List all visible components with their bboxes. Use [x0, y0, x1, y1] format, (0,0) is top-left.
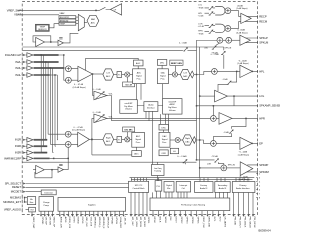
junction micbias [24, 197, 26, 199]
variable gain amp VGA2 (right bypass) [94, 114, 107, 123]
pin WCLK [163, 211, 165, 215]
wire SA2 to amp [231, 22, 241, 29]
svg-text:0...−12dB: 0...−12dB [93, 89, 102, 91]
svg-text:PRI_DIN: PRI_DIN [233, 217, 235, 226]
node row4R [53, 158, 55, 160]
svg-text:Left: Left [107, 72, 111, 75]
amp A4L [27, 73, 33, 78]
svg-text:ADC: ADC [137, 72, 142, 75]
wire to multiplier R [122, 138, 125, 140]
pin DOUT [174, 211, 176, 215]
svg-text:DRC: DRC [160, 62, 165, 64]
svg-text:Gen M: Gen M [125, 85, 132, 87]
block factory audio IF [195, 182, 214, 193]
wire row2 [205, 12, 216, 14]
op-amp U4 (bandgap buffer with feedback loop) [36, 37, 45, 46]
PGA R (0..47dB) [78, 132, 90, 147]
wire IN4L [26, 74, 28, 76]
svg-text:miniDSP: miniDSP [125, 103, 133, 105]
svg-text:SAR: SAR [91, 18, 96, 21]
svg-text:Dig Mixer: Dig Mixer [124, 106, 133, 108]
bypass wire (y118.4) [107, 117, 211, 119]
svg-text:EP: EP [259, 141, 263, 145]
wire bus to sum R1 [48, 133, 65, 135]
svg-text:Detection: Detection [44, 192, 52, 195]
pin VREF_CAP [31, 212, 33, 215]
op-amp G (speaker right driver) [240, 162, 253, 176]
svg-text:Secondary: Secondary [218, 185, 228, 187]
svg-text:±30dB: ±30dB [237, 5, 243, 7]
label MB bars bottom [59, 164, 62, 165]
svg-text:HPR: HPR [259, 116, 265, 120]
pin INT2 [217, 211, 219, 215]
pin CFLY1M [48, 211, 50, 214]
svg-text:DRC: DRC [162, 127, 167, 129]
attenuator EP [229, 129, 234, 133]
wire to multiplier [122, 74, 125, 76]
svg-text:AGC: AGC [134, 153, 139, 156]
wire IN1R [26, 139, 28, 141]
svg-text:Audio: Audio [148, 104, 154, 107]
wire bus to sum R2 [50, 143, 65, 145]
svg-text:VDD_1V8: VDD_1V8 [85, 217, 87, 228]
svg-text:GPIO5: GPIO5 [197, 217, 199, 224]
pin SPI_SCLK [134, 192, 136, 214]
mux M1 (battery monitor mux) [78, 14, 84, 30]
svg-text:ADC: ADC [106, 75, 111, 78]
amp A4R [27, 156, 33, 161]
svg-text:DMIC_CLK: DMIC_CLK [202, 217, 204, 229]
wire U5 output to mux [63, 33, 78, 43]
wire amp E out [232, 117, 258, 119]
svg-text:ASRC: ASRC [170, 103, 176, 106]
pin INT1 [212, 211, 214, 215]
svg-text:AVDD_1V8: AVDD_1V8 [60, 217, 63, 229]
pin DMIC_CLK [201, 211, 203, 215]
svg-text:DAC: DAC [183, 75, 188, 78]
svg-text:ADC: ADC [136, 135, 141, 138]
DAC U7 (left sigma-delta DAC) [180, 69, 190, 79]
svg-text:DAC: DAC [185, 140, 190, 143]
svg-text:SPKAMP_SENSE: SPKAMP_SENSE [259, 104, 280, 108]
svg-text:WCLK: WCLK [164, 217, 166, 224]
svg-text:MICBIAS: MICBIAS [10, 195, 21, 199]
wire VBAT [18, 14, 59, 16]
wire D1 to SA1 handled, wire SA1 to amp [231, 11, 241, 17]
op-amp F (earpiece driver) [240, 137, 252, 149]
wire IN2L [26, 61, 28, 63]
wires bus into SPI box [132, 178, 147, 182]
svg-text:(6-dB Steps): (6-dB Steps) [238, 178, 250, 181]
svg-text:−51 dB: −51 dB [198, 16, 205, 18]
pin SPKVDD_L [93, 211, 95, 214]
svg-text:DVSS: DVSS [72, 217, 74, 223]
svg-text:HPL: HPL [259, 69, 265, 73]
pin PRI_MCLK [252, 193, 254, 215]
block OSR [159, 150, 168, 156]
svg-text:GPIO2: GPIO2 [180, 217, 182, 224]
svg-text:MCLK: MCLK [153, 217, 155, 224]
pin PRI_WCLK [248, 193, 250, 215]
wire IN1L [26, 54, 28, 56]
svg-text:5: 5 [259, 186, 261, 188]
svg-text:IOVSS: IOVSS [81, 217, 83, 224]
variable gain amp VGA1 (left bypass) [94, 91, 107, 100]
svg-text:MICDET: MICDET [11, 190, 22, 194]
svg-text:−0.2 dB: −0.2 dB [198, 26, 205, 28]
block pin muxing / clock routing [150, 198, 230, 211]
wire into VGA2 [92, 118, 94, 139]
pin SPKVSS_L [97, 211, 99, 214]
block mic bias [27, 197, 35, 205]
wire SB2 to amp B [231, 39, 240, 41]
svg-text:RECP: RECP [259, 14, 267, 18]
svg-text:Charge: Charge [43, 202, 50, 204]
block interrupt ctrl [176, 182, 190, 193]
wire mult to DAC R hexagon [180, 139, 183, 141]
block digital mic [164, 182, 174, 193]
multiplier X1 (digital volume) [125, 72, 130, 77]
node loop bottom [51, 169, 53, 171]
wire PGA R out [89, 138, 103, 140]
digital mic block L (shaded) [123, 82, 135, 87]
svg-text:CPVDD: CPVDD [41, 217, 43, 225]
wire dmic R to mult [126, 132, 128, 137]
block detection [41, 190, 56, 195]
svg-text:SPKVSS_R: SPKVSS_R [106, 217, 108, 229]
bus bar IN1R [34, 139, 48, 141]
block audio interface [144, 102, 158, 112]
svg-text:DAC: DAC [162, 135, 167, 138]
svg-text:VREF_AUDIO: VREF_AUDIO [4, 207, 21, 211]
svg-text:INT2: INT2 [218, 217, 220, 223]
svg-text:TEMP: TEMP [60, 24, 66, 26]
svg-text:LOL: LOL [198, 5, 203, 7]
wire U4 output [45, 41, 59, 43]
amp A1R [27, 138, 33, 143]
svg-text:GPR_IN: GPR_IN [225, 48, 232, 50]
temp sensor U3 [35, 24, 49, 31]
svg-text:Bias: Bias [30, 202, 34, 204]
wire VGA1 out to bypass bus [107, 96, 112, 121]
svg-text:Interface: Interface [147, 107, 156, 110]
multiplier X3 [125, 137, 130, 142]
wire VREF_SUP [18, 9, 97, 11]
svg-text:HPL: HPL [198, 13, 203, 15]
bypass wire (y154.9) [92, 154, 132, 156]
wires interface vertical bus ends [196, 40, 198, 160]
ADC U2 (SAR ADC hexagon) [87, 15, 99, 26]
svg-text:Audio Interface: Audio Interface [236, 187, 250, 190]
svg-text:−1.3dB: −1.3dB [222, 79, 229, 81]
wires secondary IF to pinmux [216, 192, 228, 198]
svg-text:PRI_WCLK: PRI_WCLK [248, 217, 250, 229]
pin IOVDD [76, 211, 78, 214]
wire IN3R [26, 152, 28, 154]
op-amp U10 (ref buffer bottom, with loop) [36, 165, 45, 174]
wire DAC L out to HP summer [194, 71, 212, 74]
svg-text:(1-dB Steps): (1-dB Steps) [236, 7, 248, 10]
wire U10 out [44, 169, 58, 171]
block SPI I2C control [129, 181, 149, 192]
svg-text:Signal: Signal [160, 76, 166, 78]
pin DVDD_1V8 [67, 211, 69, 214]
pin IOVSS [80, 211, 82, 214]
wire hex to decimator [114, 74, 117, 76]
interface bus wire (y177.6) [130, 177, 255, 179]
wire DACSP to mult [168, 74, 172, 76]
svg-text:−78 dB: −78 dB [198, 33, 205, 35]
pin MCLK [152, 211, 154, 215]
pin SPI_SSZ [130, 192, 132, 214]
monitor input row 2 [59, 19, 76, 22]
svg-text:VREF_CAP: VREF_CAP [32, 217, 35, 229]
mid bus wire B (y50.4) [22, 49, 183, 51]
svg-text:SPI_SSZ: SPI_SSZ [131, 217, 133, 227]
svg-text:Low Freq: Low Freq [154, 168, 162, 170]
block low freq tracking [152, 165, 165, 176]
svg-text:DVDD_1V8: DVDD_1V8 [68, 217, 70, 229]
summer SB1 [217, 37, 223, 43]
svg-text:Signal: Signal [136, 76, 142, 78]
svg-text:RESET: RESET [12, 185, 21, 189]
wire MICBIAS [26, 197, 28, 199]
svg-text:IN1R: IN1R [15, 138, 21, 142]
svg-text:Digital: Digital [166, 184, 172, 187]
bus bar IN4R [34, 158, 50, 160]
beep generator (shaded) [170, 60, 183, 65]
svg-text:Volume: Volume [125, 109, 133, 111]
svg-text:IN4L: IN4L [15, 73, 21, 77]
wire att C down to summer C [223, 47, 225, 69]
svg-text:DAC: DAC [161, 72, 166, 75]
PGA L (0..47dB) [78, 66, 93, 81]
svg-text:SPKRM: SPKRM [259, 170, 269, 174]
svg-text:6: 6 [259, 190, 261, 192]
svg-text:PRI_DOUT: PRI_DOUT [238, 217, 240, 229]
svg-text:3: 3 [259, 178, 261, 180]
attenuator row1 [209, 6, 214, 10]
wire sidetone tap down [92, 74, 94, 96]
svg-text:BCLK: BCLK [158, 217, 160, 223]
summer SF (EP path) [211, 141, 217, 147]
pin DIN [168, 211, 170, 215]
pin GPIO4 [190, 211, 192, 215]
svg-text:Right: Right [106, 137, 111, 140]
svg-text:HPVSS: HPVSS [115, 217, 117, 225]
bus bar IN2L [34, 61, 59, 63]
pin PRI_BCLK [243, 193, 245, 215]
wire tap down right channel [91, 139, 93, 155]
ADC U6 (left sigma-delta hexagon) [103, 69, 114, 80]
summer SG (spk right) [221, 165, 227, 171]
svg-text:SPI_MISO: SPI_MISO [143, 217, 145, 228]
pin VSS_1V8 [89, 211, 91, 214]
pin I2C_ADR0 [223, 211, 225, 215]
svg-text:LOR: LOR [198, 23, 203, 25]
svg-text:AGC: AGC [136, 62, 141, 65]
pin GPIO5 [196, 211, 198, 215]
wires ASRC down [166, 114, 169, 132]
block primary audio interface [232, 182, 255, 193]
svg-text:SPKRP: SPKRP [259, 163, 268, 167]
pin DVSS [72, 211, 74, 214]
svg-text:INT1: INT1 [213, 217, 215, 223]
summer SE (HPR path) [211, 116, 217, 122]
svg-text:SPKVDD_R: SPKVDD_R [102, 217, 104, 229]
wire mult to DAC hexagon [177, 74, 180, 76]
wire lowfreq up [157, 162, 159, 180]
wire IN4R [26, 157, 28, 159]
op-amp E (HPR driver) [219, 113, 232, 125]
amp A3L [27, 66, 33, 71]
svg-text:VNEG_CP: VNEG_CP [52, 217, 54, 228]
wire SB1-SB2 [223, 39, 227, 41]
svg-text:Tracking: Tracking [154, 171, 161, 173]
summer SA2 [225, 26, 231, 32]
wire audio interface to PLL [152, 111, 154, 164]
op-amp C (HPL driver) [240, 65, 252, 77]
summer SB2 [226, 37, 232, 43]
pin PRI_DIN [233, 193, 235, 215]
svg-text:B0399-04: B0399-04 [259, 229, 272, 233]
block AGC R [132, 151, 142, 157]
svg-text:SENSOR: SENSOR [38, 29, 47, 31]
wire VREF_AUDIO [26, 209, 29, 211]
op-amp A (headset left driver) [241, 13, 251, 23]
multiplier X4 [175, 137, 180, 142]
svg-text:Ref: Ref [31, 210, 34, 212]
block DRC R [159, 124, 168, 130]
summer S1 (left record path) [66, 66, 72, 72]
wire amp C out [252, 70, 257, 72]
summer SC (headphone L) [212, 69, 218, 75]
block secondary audio IF [215, 182, 230, 193]
svg-text:IOVDD: IOVDD [77, 217, 79, 224]
svg-text:−6...14dB: −6...14dB [239, 152, 248, 154]
svg-text:OSR: OSR [161, 153, 166, 155]
wires between mixer blocks [137, 106, 162, 121]
block DRC L [157, 60, 166, 66]
wire SPI_SELECT [26, 183, 129, 185]
svg-text:Fs: Fs [118, 140, 120, 142]
svg-text:ADC: ADC [91, 22, 96, 25]
svg-text:BEEP GEN: BEEP GEN [171, 63, 182, 65]
node PGA L out [92, 73, 94, 75]
svg-text:IN2L: IN2L [15, 60, 21, 64]
pin GPIO3 [185, 211, 187, 215]
svg-text:SPKLM: SPKLM [259, 41, 269, 45]
svg-text:Proc.: Proc. [136, 142, 141, 144]
wires amp B outputs [245, 38, 258, 43]
output stage diamond L [190, 71, 194, 78]
svg-text:HPVDD: HPVDD [111, 217, 113, 225]
svg-text:Supplies: Supplies [88, 204, 96, 206]
pin GPIO1 [146, 192, 148, 214]
svg-text:VOL: VOL [109, 93, 114, 95]
wire AGC to ASP [137, 66, 139, 69]
svg-text:VBAT: VBAT [60, 12, 66, 15]
svg-text:DMIC_DIN: DMIC_DIN [207, 217, 209, 228]
summer S2 [66, 77, 72, 83]
svg-text:SPI_SCLK: SPI_SCLK [135, 217, 137, 228]
op-amp U11 (MB buffer bottom) [58, 167, 63, 172]
svg-text:miniDSP: miniDSP [168, 101, 176, 103]
svg-text:0 ... 47 dB: 0 ... 47 dB [74, 84, 84, 86]
pin SPKVSS_R [106, 211, 108, 214]
svg-text:LOL: LOL [259, 94, 265, 98]
svg-text:0...30dB: 0...30dB [238, 30, 246, 32]
pin SPKVDD_R [101, 211, 103, 214]
pin GPIO2 [179, 211, 181, 215]
svg-text:8: 8 [259, 198, 261, 200]
svg-text:VOL: VOL [109, 116, 114, 118]
wire DACSP R to mult [170, 139, 175, 141]
pin DMIC_DIN [207, 211, 209, 215]
svg-text:LOR: LOR [207, 163, 212, 165]
wire mux to SAR ADC [84, 22, 87, 24]
chip boundary (dashed) [22, 2, 257, 215]
block ADC signal processing R [132, 132, 145, 147]
pin CFLY1P [44, 211, 46, 214]
svg-text:MICBIAS_EXT: MICBIAS_EXT [3, 200, 21, 204]
svg-text:Audio IF: Audio IF [219, 187, 227, 190]
svg-text:Pump: Pump [44, 205, 50, 207]
wires audio IF tops to bus [200, 178, 248, 182]
wire into VGA1 [93, 95, 94, 97]
svg-text:GPIO4: GPIO4 [191, 217, 193, 224]
svg-text:Proc.: Proc. [162, 142, 167, 144]
wire DAC R out to EP summer [196, 140, 211, 143]
block DAC signal processing L [157, 69, 168, 84]
bus bar IN1L [34, 54, 59, 56]
svg-text:−6...14dB: −6...14dB [238, 60, 247, 62]
pin BCLK [157, 211, 159, 215]
block DAC signal processing R [159, 132, 170, 147]
wire to ADC signal proc [130, 74, 133, 76]
wire DACSP L up links [161, 84, 163, 125]
monitor input row 3 (TEMP) [59, 22, 76, 25]
svg-text:Factory: Factory [200, 184, 207, 187]
svg-text:Ctrl.: Ctrl. [182, 187, 186, 190]
block Vol ctl [170, 148, 178, 153]
svg-text:−75.5dB: −75.5dB [211, 156, 219, 158]
label MB bars [59, 38, 62, 39]
wire amp D out [227, 95, 257, 97]
wire AGC feedback left [86, 58, 139, 70]
wire line out input [200, 95, 215, 97]
wire MICBIAS_EXT [26, 201, 28, 203]
attenuator row2 [209, 11, 214, 15]
svg-text:VSSA_REF: VSSA_REF [119, 217, 122, 229]
svg-text:LDO_IN: LDO_IN [123, 217, 125, 225]
pin CPVDD [40, 211, 42, 214]
bus bar IN2R [34, 145, 48, 147]
bus bar IN4L [34, 74, 50, 76]
interface bus wire (y179.4) [131, 178, 253, 180]
wire IN3L [26, 67, 28, 69]
bus bar IN3R [34, 152, 48, 154]
block PLL [155, 181, 162, 192]
block supplies [58, 198, 126, 212]
pin SPI_MISO [142, 192, 144, 214]
svg-text:SPKLP: SPKLP [259, 36, 268, 40]
svg-text:IN2R: IN2R [15, 144, 21, 148]
wire row3 [205, 25, 216, 27]
svg-text:SPI / I²C: SPI / I²C [135, 184, 143, 187]
svg-text:Mic.: Mic. [167, 188, 171, 190]
svg-text:AVSS: AVSS [64, 217, 67, 223]
